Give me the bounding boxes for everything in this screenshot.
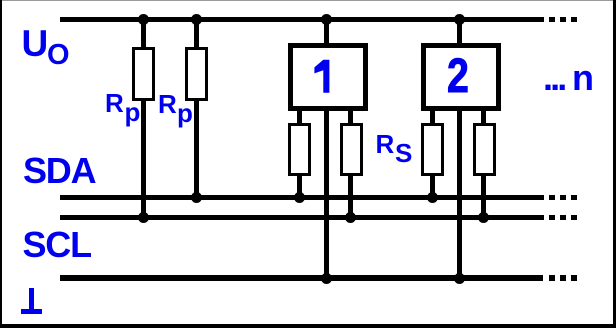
label device number 2: [447, 53, 469, 101]
wire device 1 to Rs1a stub: [297, 108, 302, 125]
device box 1: [288, 43, 369, 111]
junction rail/Rp1: [138, 14, 149, 25]
junction rail/Rp2: [191, 14, 202, 25]
label ...n (more devices): [543, 60, 564, 96]
junction SCL/Rs2b: [478, 212, 489, 223]
label device number 1: [310, 55, 334, 97]
wire device 1 to Rs1b stub: [348, 108, 353, 125]
label SDA: [23, 153, 95, 189]
wire ground rail: [60, 275, 543, 281]
wire device 2 supply lead: [457, 19, 462, 46]
junction ground/device1: [321, 273, 332, 284]
wire device 2 ground lead: [457, 108, 462, 280]
resistor Rs (device 1, SDA): [288, 123, 311, 176]
wire SDA continuation dots: [549, 195, 555, 200]
junction SDA/Rs2a: [427, 192, 438, 203]
junction SDA/Rs1a: [294, 192, 305, 203]
wire Rs2b lead to SCL: [481, 174, 486, 219]
wire Rp1 lower lead to SCL: [141, 99, 146, 219]
resistor Rs (device 1, SCL): [340, 123, 363, 176]
wire device 1 supply lead: [324, 19, 329, 46]
wire device 2 to Rs2b stub: [481, 108, 486, 125]
wire ground continuation dots: [549, 275, 555, 281]
wire Rs1a lead to SDA: [297, 174, 302, 199]
label Rp (second pull-up): [158, 91, 177, 117]
wire Rp1 upper lead: [141, 19, 146, 49]
junction rail/device2: [454, 14, 465, 25]
wire Vcc rail continuation dots: [549, 17, 555, 22]
label SCL: [23, 227, 91, 263]
label Rp (first pull-up): [105, 90, 124, 116]
junction SCL/Rs1b: [345, 212, 356, 223]
label Uo (supply voltage): [22, 25, 49, 62]
resistor Rp (first pull-up): [132, 47, 156, 101]
junction ground/device2: [454, 273, 465, 284]
label Rs (series resistors): [376, 131, 395, 157]
resistor Rp (second pull-up): [185, 47, 209, 101]
wire SCL bus line: [60, 215, 544, 220]
wire Rp2 lower lead to SDA: [194, 99, 199, 199]
junction SDA/Rp2: [191, 192, 202, 203]
wire Rs1b lead to SCL: [348, 174, 353, 219]
wire Rp2 upper lead: [194, 19, 199, 49]
wire SDA bus line: [60, 195, 544, 200]
resistor Rs (device 2, SCL): [473, 123, 497, 176]
wire SCL continuation dots: [549, 215, 555, 220]
wire device 1 ground lead: [324, 108, 329, 280]
ground symbol: [29, 288, 34, 309]
resistor Rs (device 2, SDA): [421, 123, 445, 176]
junction SCL/Rp1: [138, 212, 149, 223]
wire Rs2a lead to SDA: [430, 174, 435, 199]
wire device 2 to Rs2a stub: [430, 108, 435, 125]
wire Vcc rail: [60, 17, 544, 22]
device box 2: [421, 43, 501, 111]
junction rail/device1: [321, 14, 332, 25]
